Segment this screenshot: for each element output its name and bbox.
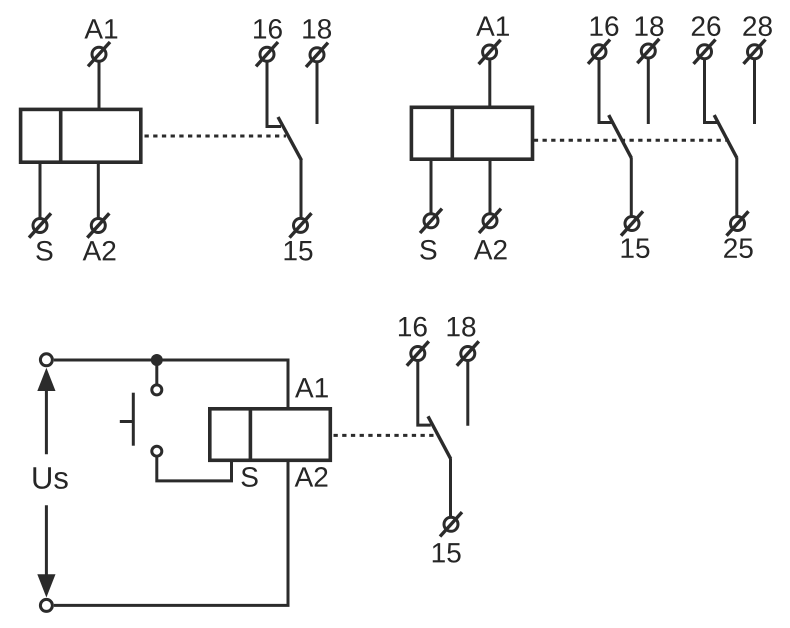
label 16 (diagram 1) (254, 19, 282, 39)
label A1 (diagram 2) (476, 17, 509, 36)
wire 16 (diagram 2) (599, 60, 612, 123)
wire junction to button (155, 360, 158, 384)
terminal A1 (diagram 2) (479, 40, 501, 64)
label A1 (diagram 3) (295, 378, 328, 397)
wire 16 (diagram 3) (418, 362, 431, 425)
wire A1 to coil (diagram 1) (98, 62, 101, 109)
wire S pin (diagram 1) (39, 162, 42, 218)
supply terminal - (open circle, bottom left) (40, 599, 52, 611)
wire 26 (diagram 2) (705, 60, 718, 123)
supply terminal + (open circle, top left) (40, 354, 52, 366)
coil box divider (diagram 2) (450, 107, 454, 159)
label S (diagram 1) (36, 241, 52, 261)
label 18 (diagram 3) (448, 317, 476, 337)
label 18 (diagram 2) (636, 16, 664, 36)
Us arrow down head (37, 574, 55, 597)
junction node (151, 354, 163, 366)
wire A2 pin (diagram 2) (489, 159, 492, 213)
wire 18 (diagram 3) (466, 362, 469, 426)
wire 28 (diagram 2) (753, 60, 756, 124)
contact blade 15-16 (diagram 3) (428, 416, 451, 459)
label Us (33, 467, 67, 489)
terminal 15 (diagram 1) (290, 213, 312, 237)
terminal 28 (diagram 2) (744, 40, 766, 64)
wire S pin (diagram 2) (430, 159, 433, 213)
terminal S (diagram 1) (29, 213, 51, 237)
wire 18 (diagram 2) (647, 59, 650, 124)
wire button to S pin (157, 457, 232, 481)
wire A1 to coil (diagram 2) (488, 60, 491, 107)
label A2 (diagram 3) (295, 467, 328, 487)
label 15 (diagram 2) (622, 239, 650, 259)
label 28 (diagram 2) (743, 16, 772, 36)
wire 16 (diagram 1) (267, 62, 281, 126)
contact blade 15-16 (diagram 2) (609, 115, 632, 158)
wire 18 (diagram 1) (316, 63, 319, 124)
wire 25 (diagram 2) (735, 158, 738, 216)
terminal 25 (diagram 2) (727, 211, 749, 235)
terminal A2 (diagram 2) (479, 209, 501, 233)
Us arrow up head (37, 368, 55, 391)
relay coil box K1 (diagram 3) (210, 409, 330, 461)
terminal 18 (diagram 1) (306, 43, 328, 67)
terminal 16 (diagram 2) (588, 40, 610, 64)
terminal 15 (diagram 2) (621, 211, 643, 235)
mechanical link dotted line (diagram 2) (534, 139, 729, 142)
coil box divider (diagram 3) (249, 409, 253, 461)
contact blade 25-26 (diagram 2) (714, 115, 737, 158)
label A1 (diagram 1) (84, 19, 117, 38)
coil box divider (diagram 1) (59, 109, 63, 162)
push button S fixed contact (bottom) (152, 446, 162, 456)
label 16 (diagram 2) (591, 16, 619, 36)
terminal A2 (diagram 1) (87, 213, 109, 237)
wire 15 (diagram 3) (449, 459, 452, 517)
mechanical link dotted line (diagram 1) (145, 135, 287, 138)
label 26 (diagram 2) (692, 16, 721, 36)
label 25 (diagram 2) (724, 238, 753, 258)
label 15 (diagram 1) (285, 241, 313, 261)
wire A2 to supply bottom (54, 460, 288, 605)
terminal 15 (diagram 3) (440, 512, 462, 536)
label 15 (diagram 3) (433, 543, 461, 563)
terminal S (diagram 2) (420, 209, 442, 233)
relay coil box K1 (diagram 2) (411, 107, 532, 159)
relay coil box K1 (diagram 1) (21, 109, 141, 162)
wire supply top to A1 (54, 360, 288, 409)
label S (diagram 2) (420, 240, 436, 260)
label A2 (diagram 1) (83, 241, 116, 261)
wire 15 (diagram 1) (300, 160, 303, 218)
push button S fixed contact (top) (152, 385, 162, 395)
push button actuator (120, 393, 134, 446)
label 18 (diagram 1) (303, 19, 331, 39)
terminal 16 (diagram 1) (256, 42, 278, 66)
Us arrow shaft upper (45, 389, 48, 454)
contact blade 15-16 (diagram 1) (278, 117, 302, 160)
terminal 18 (diagram 3) (457, 341, 479, 365)
label A2 (diagram 2) (474, 240, 507, 260)
label 16 (diagram 3) (399, 317, 427, 337)
terminal 18 (diagram 2) (637, 39, 659, 63)
Us arrow shaft lower (45, 505, 48, 577)
terminal 16 (diagram 3) (407, 341, 429, 365)
terminal 26 (diagram 2) (694, 40, 716, 64)
wire A2 pin (diagram 1) (97, 162, 100, 218)
label S (diagram 3) (242, 467, 258, 487)
terminal A1 (diagram 1) (88, 42, 110, 66)
mechanical link dotted line (diagram 3) (334, 434, 438, 437)
wire 15 (diagram 2) (630, 158, 633, 216)
